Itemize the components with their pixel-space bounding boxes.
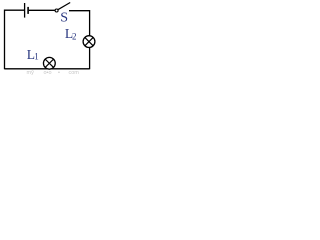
svg-text:S: S xyxy=(60,11,68,26)
svg-text:mŷ: mŷ xyxy=(27,70,35,75)
svg-text:2: 2 xyxy=(72,31,77,41)
svg-text:•: • xyxy=(58,70,60,75)
svg-text:o•o: o•o xyxy=(44,70,52,75)
svg-text:com: com xyxy=(69,70,80,75)
svg-text:1: 1 xyxy=(34,52,39,62)
